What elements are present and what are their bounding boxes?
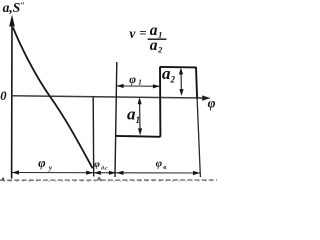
svg-text:φу: φу [38, 156, 53, 172]
rise acceleration diagonal [13, 27, 93, 168]
svg-text:=: = [139, 25, 146, 40]
rise end vertical line [92, 97, 95, 177]
svg-text:ν: ν [129, 26, 136, 41]
y-axis arrowhead [9, 15, 15, 27]
a1 pulse rectangle (below axis) [116, 67, 161, 137]
a2 pulse rectangle top edge [160, 66, 196, 69]
y-axis [11, 22, 13, 179]
bottom dimension line [12, 172, 200, 175]
a2 right boundary extension below axis [197, 98, 200, 177]
svg-text:a,S″: a,S″ [3, 0, 25, 15]
a2 right edge [196, 67, 197, 98]
formula nu = a1/a2 [129, 22, 166, 55]
dim arrow right end (phi_v) [193, 171, 200, 175]
svg-text:φ: φ [208, 96, 216, 111]
a2 internal dimension arrow [179, 68, 184, 96]
svg-text:0: 0 [0, 89, 7, 103]
svg-text:a1: a1 [127, 105, 140, 125]
a1 internal dimension arrow [138, 97, 143, 135]
dim arrow pair at rise end [86, 171, 101, 175]
return start boundary vertical at x=116 [115, 62, 117, 177]
phi1 dimension line [117, 84, 160, 89]
svg-text:φ1: φ1 [129, 74, 141, 86]
svg-text:φв: φв [156, 158, 167, 171]
dim arrow left end (phi_u) [12, 170, 19, 174]
scan artifact: dark streak at bottom edge [0, 177, 217, 181]
svg-text:φд.с: φд.с [94, 160, 108, 172]
phi axis arrowhead [202, 95, 210, 100]
phi axis [12, 96, 204, 98]
dim arrow pair at return start [109, 171, 124, 175]
